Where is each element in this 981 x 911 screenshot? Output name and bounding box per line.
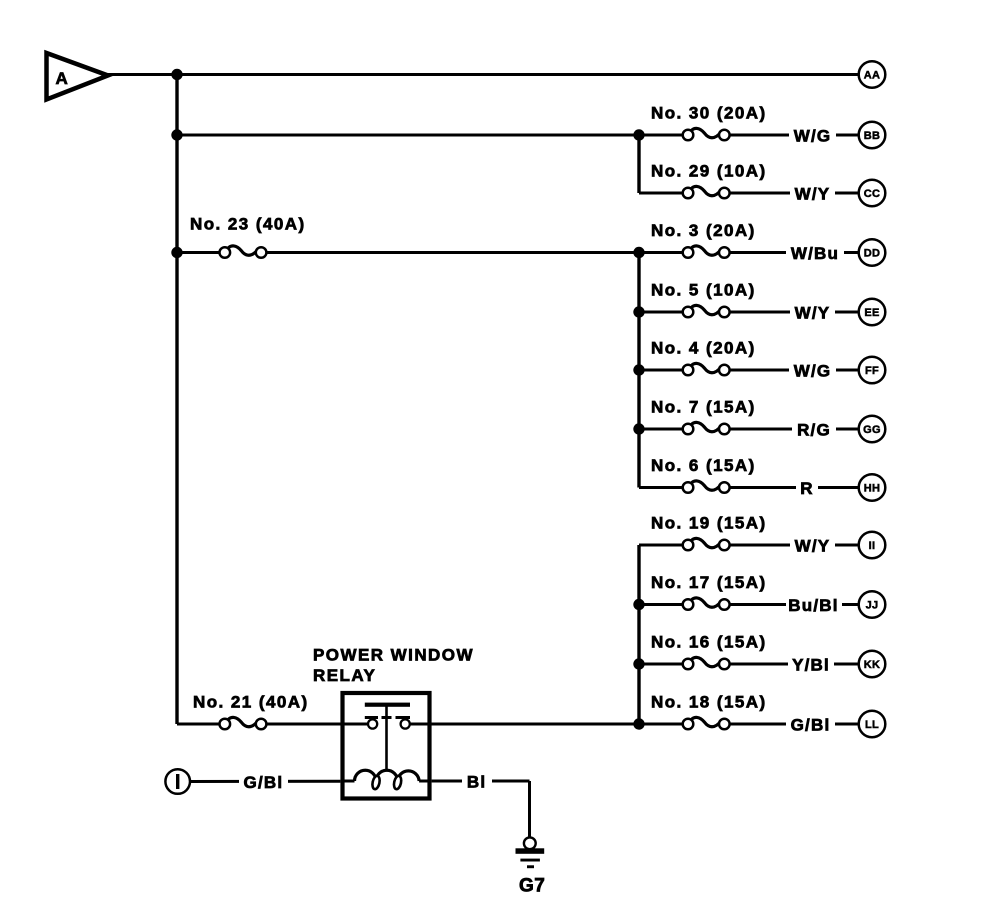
fuse No. 23 (190, 215, 306, 258)
svg-text:CC: CC (864, 188, 881, 200)
terminal I (165, 769, 190, 794)
wire KK row (639, 663, 859, 666)
svg-text:KK: KK (864, 659, 881, 671)
svg-text:G/Bl: G/Bl (244, 773, 284, 792)
relay armature stem (385, 706, 388, 771)
wire label W/Y (790, 183, 835, 204)
wire GG row (639, 428, 859, 431)
svg-text:EE: EE (864, 307, 879, 319)
wire label W/G (789, 125, 836, 146)
junction dot LL branch (633, 718, 644, 729)
terminal JJ (859, 591, 886, 618)
svg-text:No. 16 (15A): No. 16 (15A) (651, 633, 767, 652)
svg-text:No. 5 (10A): No. 5 (10A) (651, 281, 756, 300)
svg-text:W/G: W/G (794, 362, 832, 381)
terminal FF (859, 357, 886, 384)
svg-text:No. 21 (40A): No. 21 (40A) (193, 693, 309, 712)
wire HH row (639, 486, 859, 489)
junction dot DD branch (633, 247, 644, 258)
terminal CC (859, 180, 886, 207)
svg-text:RELAY: RELAY (313, 666, 376, 685)
relay contact gap mask (377, 719, 400, 729)
relay coil (355, 770, 420, 790)
svg-text:No. 23 (40A): No. 23 (40A) (190, 215, 306, 234)
svg-text:HH: HH (864, 482, 881, 494)
wire CC row (639, 192, 859, 195)
terminal II (859, 532, 886, 559)
svg-text:Y/Bl: Y/Bl (792, 656, 830, 675)
wire label W/Y II (790, 535, 835, 556)
svg-text:FF: FF (865, 365, 879, 377)
svg-text:A: A (56, 69, 70, 88)
fuse No. 18 (651, 693, 767, 730)
junction dot FF branch (633, 364, 644, 375)
svg-text:No. 30 (20A): No. 30 (20A) (651, 104, 767, 123)
wire coil right lead (419, 780, 428, 783)
terminal EE (859, 299, 886, 326)
wire EE row (639, 311, 859, 314)
wire coil left lead (344, 780, 355, 783)
relay contact left (368, 719, 377, 728)
fuse No. 16 (651, 633, 767, 670)
svg-text:LL: LL (865, 719, 879, 731)
svg-text:G/Bl: G/Bl (791, 716, 831, 735)
junction dot EE branch (633, 306, 644, 317)
svg-text:W/G: W/G (794, 127, 832, 146)
svg-text:No. 4 (20A): No. 4 (20A) (651, 339, 756, 358)
svg-text:W/Bu: W/Bu (791, 244, 839, 263)
fuse No. 17 (651, 573, 767, 610)
svg-text:GG: GG (863, 424, 881, 436)
svg-text:JJ: JJ (866, 599, 879, 611)
junction dot bus/DD (171, 247, 182, 258)
wire label W/G FF (789, 360, 836, 381)
terminal HH (859, 474, 886, 501)
terminal AA (859, 61, 886, 88)
svg-text:G7: G7 (519, 876, 545, 897)
wire label Bl (462, 771, 492, 792)
relay box U1 (343, 693, 430, 799)
wire I to relay (190, 780, 340, 783)
svg-text:No. 6 (15A): No. 6 (15A) (651, 456, 756, 475)
wire II row (639, 544, 859, 547)
fuse No. 29 (651, 162, 767, 199)
wire DD row (177, 251, 859, 254)
wire JJ row (639, 603, 859, 606)
terminal LL (859, 711, 886, 738)
svg-text:W/Y: W/Y (795, 537, 831, 556)
wire LL row (177, 723, 859, 726)
right vertical wire DD-HH (637, 253, 640, 488)
svg-text:Bl: Bl (467, 773, 486, 792)
fuse No. 21 (193, 693, 309, 730)
wire label R/G (792, 419, 836, 440)
wire relay to ground (432, 781, 530, 838)
wire BB row (177, 134, 859, 137)
right vertical wire II-LL (637, 545, 640, 724)
connector triangle A (47, 53, 109, 100)
svg-text:POWER WINDOW: POWER WINDOW (313, 646, 474, 665)
relay contact bar (365, 703, 410, 707)
fuse No. 5 (651, 281, 756, 318)
wire label G/Bl I (239, 772, 288, 793)
wire FF row (639, 369, 859, 372)
junction dot bus/AA (171, 69, 182, 80)
relay linkage dashes (365, 716, 410, 719)
terminal GG (859, 416, 886, 443)
ground G7 (516, 837, 546, 896)
svg-text:No. 19 (15A): No. 19 (15A) (651, 514, 767, 533)
svg-text:AA: AA (864, 69, 881, 81)
fuse No. 30 (651, 104, 767, 141)
junction dot JJ branch (633, 599, 644, 610)
junction dot KK branch (633, 658, 644, 669)
wire label G/Bl LL (786, 714, 835, 735)
wire AA row (104, 73, 859, 76)
svg-text:R/G: R/G (797, 421, 831, 440)
power window relay label (313, 646, 474, 686)
svg-text:BB: BB (864, 130, 881, 142)
terminal DD (859, 239, 886, 266)
svg-text:No. 17 (15A): No. 17 (15A) (651, 573, 767, 592)
svg-text:No. 3 (20A): No. 3 (20A) (651, 221, 756, 240)
fuse No. 19 (651, 514, 767, 551)
svg-text:No. 29 (10A): No. 29 (10A) (651, 162, 767, 181)
svg-text:No. 7 (15A): No. 7 (15A) (651, 398, 756, 417)
wire label W/Y EE (790, 302, 835, 323)
wire label Bu/Bl (786, 595, 842, 616)
wire label Y/Bl (788, 654, 834, 675)
terminal KK (859, 651, 886, 678)
svg-text:II: II (869, 540, 876, 552)
junction dot BB branch (633, 129, 644, 140)
svg-text:DD: DD (864, 247, 881, 259)
relay contact right (401, 719, 410, 728)
junction dot GG branch (633, 423, 644, 434)
fuse No. 4 (651, 339, 756, 376)
svg-text:Bu/Bl: Bu/Bl (788, 596, 838, 615)
fuse No. 3 (651, 221, 756, 258)
right vertical wire BB-CC (637, 135, 640, 193)
wire label W/Bu (786, 243, 844, 264)
left bus wire (175, 75, 178, 725)
svg-text:W/Y: W/Y (795, 304, 831, 323)
junction dot bus/BB (171, 129, 182, 140)
svg-text:W/Y: W/Y (795, 185, 831, 204)
svg-text:No. 18 (15A): No. 18 (15A) (651, 693, 767, 712)
svg-text:R: R (800, 479, 813, 498)
wire label R (796, 478, 818, 499)
fuse No. 6 (651, 456, 756, 493)
terminal BB (859, 122, 886, 149)
fuse No. 7 (651, 398, 756, 435)
